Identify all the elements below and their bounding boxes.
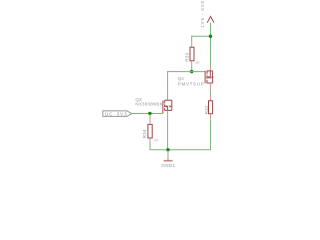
svg-text:NX3008NBK: NX3008NBK	[135, 101, 162, 106]
wire: top horizontal from R33 column to right column	[191, 35, 211, 37]
junction ground	[166, 148, 169, 151]
resistor R32 body	[209, 101, 213, 114]
Q3 substrate line	[165, 105, 168, 107]
wire: R34 to bottom rail corner	[149, 143, 151, 150]
ground symbol GND1	[167, 151, 169, 161]
Q3 diode arrow head	[169, 105, 171, 108]
wire: bottom ground rail	[150, 149, 212, 151]
Q4 channel dashes	[206, 71, 208, 75]
Q3 source column	[167, 106, 169, 110]
Q3 gate bar	[162, 101, 164, 114]
Q4 substrate arrow head	[208, 76, 210, 78]
Q3 channel dashes	[164, 100, 166, 103]
resistor R32 top lead	[210, 96, 212, 101]
resistor R33 top lead	[191, 42, 193, 48]
Q3 substrate arrow head	[165, 105, 167, 108]
resistor R34 body	[148, 124, 152, 138]
Q4 drain pin	[209, 83, 211, 91]
wire: down to R33 top	[191, 36, 193, 42]
resistor R33 body	[190, 47, 194, 61]
net label flag UC_3V3	[103, 111, 132, 117]
transistor Q3 NX3008NBK n-mosfet	[162, 95, 172, 118]
Q3 body diode line	[171, 100, 173, 110]
Q4 top stub	[207, 70, 213, 72]
Q4 source column	[209, 71, 211, 79]
wire: Q4 drain to R32	[210, 91, 212, 96]
Q4 gate bar	[204, 71, 206, 84]
resistor R34 top lead	[149, 114, 151, 124]
svg-text:0R: 0R	[154, 138, 159, 142]
Q4 diode arrow head	[212, 76, 214, 78]
Q4 bottom stub	[207, 82, 213, 84]
svg-text:Q4: Q4	[178, 76, 185, 81]
junction R33/Q4 gate	[190, 70, 193, 73]
wire: left vertical down to Q3 drain	[167, 71, 169, 95]
junction UC_3V3 / R34	[148, 112, 151, 115]
wire: supply arrow down right column to Q4 source	[210, 23, 212, 67]
svg-text:PMV75UP: PMV75UP	[178, 82, 205, 87]
resistor R32 bottom lead	[210, 114, 212, 120]
Q4 gate pin	[204, 71, 205, 73]
wire: Q4 gate rail horizontal	[167, 71, 204, 73]
Q4 source pin	[209, 67, 211, 71]
svg-text:0R: 0R	[195, 61, 200, 65]
wire: R32 down to bottom rail	[210, 120, 212, 150]
wire: R33 bottom to gate rail	[191, 66, 193, 71]
Q3 source pin	[167, 110, 169, 118]
transistor Q4 PMV75UP p-mosfet	[204, 67, 214, 91]
Q3 drain pin	[167, 95, 169, 101]
svg-text:R34: R34	[142, 129, 147, 138]
Q3 gate pin	[162, 112, 163, 114]
wire: Q3 source down to bottom rail	[167, 118, 169, 150]
wire: UC_3V3 to Q3 gate	[132, 113, 162, 115]
Q3 bottom stub	[165, 109, 172, 111]
Q4 body diode line	[212, 71, 214, 83]
svg-text:R32: R32	[204, 105, 209, 114]
Q3 top stub	[165, 99, 172, 101]
resistor R33 bottom lead	[191, 61, 193, 67]
svg-text:GND1: GND1	[161, 163, 175, 168]
junction at supply column	[209, 35, 212, 38]
svg-text:UC_3V3: UC_3V3	[105, 112, 128, 118]
Q4 substrate line	[207, 76, 210, 78]
svg-text:R33: R33	[185, 52, 190, 61]
supply symbol 1V8-6V0 arrow	[207, 16, 214, 22]
resistor R34 bottom lead	[149, 138, 151, 143]
svg-text:1V8 - 6V0: 1V8 - 6V0	[200, 0, 205, 28]
